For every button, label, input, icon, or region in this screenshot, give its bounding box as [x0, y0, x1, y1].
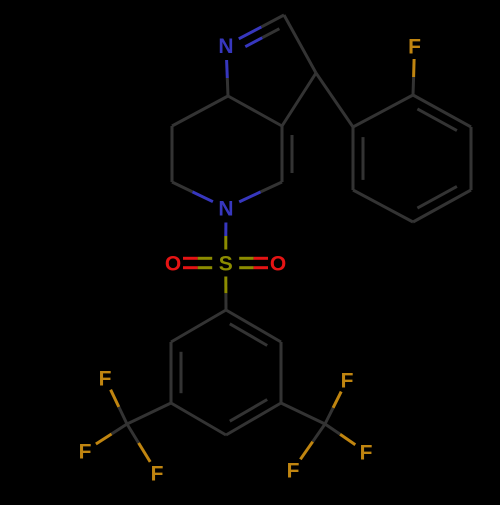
svg-text:F: F: [79, 441, 92, 464]
svg-text:S: S: [219, 253, 233, 276]
svg-text:O: O: [165, 253, 181, 276]
svg-text:F: F: [151, 463, 164, 486]
svg-text:F: F: [287, 460, 300, 483]
svg-text:O: O: [270, 253, 286, 276]
svg-text:N: N: [218, 35, 233, 58]
svg-text:N: N: [218, 198, 233, 221]
svg-text:F: F: [341, 370, 354, 393]
svg-text:F: F: [99, 368, 112, 391]
svg-text:F: F: [408, 36, 421, 59]
svg-text:F: F: [360, 442, 373, 465]
